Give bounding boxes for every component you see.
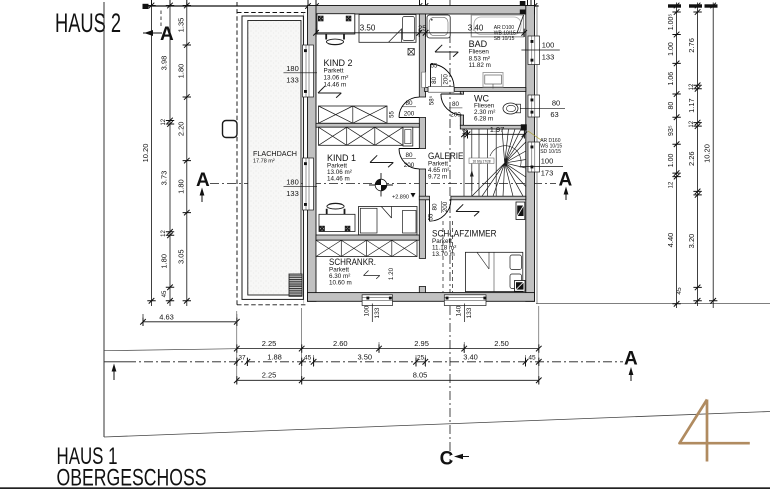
label window WC 80/63: [520, 99, 565, 120]
label window stairs 100/173: [521, 157, 563, 178]
svg-text:13.06 m²: 13.06 m²: [324, 75, 349, 82]
nightstand bottom: [515, 281, 526, 292]
svg-text:1.80: 1.80: [176, 179, 185, 194]
svg-text:80: 80: [668, 102, 675, 110]
svg-text:1.00: 1.00: [668, 153, 675, 167]
dresser KIND 1: [403, 211, 417, 234]
small table KIND 2: [408, 49, 414, 56]
svg-text:133: 133: [466, 307, 473, 318]
svg-text:2.60: 2.60: [333, 339, 348, 348]
flat roof outer box: [242, 16, 303, 299]
top dimension line: [143, 5, 539, 7]
svg-text:180: 180: [286, 64, 299, 73]
svg-text:80: 80: [432, 203, 439, 211]
branch line to dimension row: [104, 349, 237, 351]
svg-text:80: 80: [431, 76, 438, 84]
svg-text:2.26: 2.26: [687, 151, 696, 166]
bottom border line: [0, 487, 770, 489]
wall right: [526, 6, 535, 302]
svg-text:KIND 1: KIND 1: [327, 153, 356, 163]
svg-text:80: 80: [452, 101, 460, 108]
flat roof dashed outline: [237, 2, 308, 305]
svg-text:1.35: 1.35: [176, 18, 185, 33]
partition KIND2/KIND1: [316, 123, 419, 127]
wall left: [308, 6, 317, 302]
right chain fine segments: [666, 3, 681, 309]
svg-text:SCHRANKR.: SCHRANKR.: [329, 257, 376, 267]
svg-text:2.95: 2.95: [414, 339, 429, 348]
svg-text:80: 80: [405, 152, 413, 159]
svg-text:12: 12: [689, 120, 695, 127]
label WC: [474, 94, 495, 123]
svg-text:4.63: 4.63: [159, 312, 174, 321]
chair KIND 1: [327, 203, 345, 214]
dim row 12 / 1.97 (stairs): [461, 125, 527, 139]
svg-text:12: 12: [161, 118, 167, 125]
WC left wall: [460, 91, 463, 94]
hatched drain block: [289, 274, 302, 296]
wardrobe KIND 1: [319, 127, 404, 145]
section marker A top-left: [143, 9, 174, 45]
door KIND 1: [399, 149, 419, 169]
slope arrow KIND 1: [370, 155, 393, 167]
svg-text:10.20: 10.20: [141, 144, 150, 163]
arrow at left end of bottom section line: [112, 364, 117, 381]
svg-text:100: 100: [542, 41, 555, 50]
svg-text:3.73: 3.73: [160, 171, 169, 186]
window right wall 80/63 (WC): [528, 95, 540, 117]
label window BAD 100/133: [521, 41, 559, 62]
wardrobe strip: [316, 240, 417, 256]
right chain middle segments: [676, 3, 702, 307]
svg-text:2.76: 2.76: [687, 38, 696, 53]
svg-text:SB 10/15: SB 10/15: [494, 36, 515, 42]
svg-text:11.82 m: 11.82 m: [469, 62, 491, 69]
section line C vertical: [449, 0, 451, 464]
bottom row 2 (on section line): [234, 352, 542, 366]
label KIND 2: [324, 58, 353, 89]
label SCHLAFZIMMER: [432, 229, 497, 259]
chair KIND 2: [326, 34, 344, 45]
svg-text:55: 55: [429, 213, 435, 220]
svg-text:13.70 m: 13.70 m: [432, 251, 455, 258]
svg-text:93⁵: 93⁵: [668, 125, 675, 136]
stair left stringer: [463, 129, 465, 196]
walking line arc: [490, 146, 521, 168]
svg-text:3.40: 3.40: [463, 352, 478, 361]
interior wall A (KIND rooms / BAD-GALERIE): [419, 14, 425, 97]
toilet: [516, 104, 521, 113]
svg-text:A: A: [559, 170, 573, 191]
svg-text:1.88: 1.88: [267, 352, 282, 361]
svg-text:8.05: 8.05: [413, 371, 428, 380]
flat roof inner box with stipple: [248, 21, 301, 296]
svg-text:200: 200: [450, 112, 461, 119]
svg-text:133: 133: [542, 53, 555, 62]
svg-text:SCHLAFZIMMER: SCHLAFZIMMER: [432, 229, 497, 239]
slope arrow KIND 2: [318, 86, 341, 98]
marker C: [440, 449, 469, 470]
svg-text:1.17: 1.17: [687, 98, 696, 113]
section line A-A bottom: [105, 361, 128, 363]
witness lines: [237, 306, 539, 384]
svg-text:58⁵: 58⁵: [429, 95, 436, 105]
washbasin: [427, 15, 450, 38]
label KIND 1: [327, 153, 356, 183]
logo 4: [680, 400, 750, 462]
black corner mark top right: [520, 1, 526, 6]
dim row 3.50 / 25 / 3.40: [313, 23, 527, 37]
wall C above SCHLAFZIMMER: [419, 196, 429, 200]
svg-text:173: 173: [541, 169, 554, 178]
marker A right of section line: [559, 170, 573, 201]
window right wall 100/173 (stairs): [528, 142, 540, 172]
wall B below BAD: [425, 88, 429, 92]
right chain total 10.20: [703, 3, 718, 309]
downspout bracket: [223, 121, 238, 138]
window bottom wall 100/133 (SCHRANKR): [362, 295, 392, 306]
bed KIND 1: [359, 207, 418, 235]
svg-text:+2.890: +2.890: [392, 195, 409, 201]
svg-text:3.20: 3.20: [687, 234, 696, 249]
svg-text:3.05: 3.05: [176, 249, 185, 264]
svg-text:Fliesen: Fliesen: [469, 49, 490, 56]
left chain inner segments: [176, 3, 191, 307]
svg-text:45: 45: [162, 290, 168, 297]
property boundary vertical line: [103, 2, 105, 437]
svg-text:200: 200: [442, 201, 449, 212]
label GALERIE: [428, 151, 464, 181]
svg-text:133: 133: [286, 189, 299, 198]
svg-text:1.80: 1.80: [176, 64, 185, 79]
svg-text:1.06: 1.06: [668, 72, 675, 86]
door WC: [441, 94, 462, 115]
slope arrow SCHLAFZIMMER: [456, 204, 479, 216]
bed KIND 2: [359, 15, 416, 43]
label window bottom 100/133 rotated: [364, 304, 381, 323]
svg-text:1.00⁵: 1.00⁵: [668, 14, 675, 31]
level symbol: [369, 173, 393, 197]
window right wall 100/133 (BAD): [528, 36, 540, 65]
svg-text:A: A: [624, 349, 638, 370]
svg-text:16 Stg 17/28: 16 Stg 17/28: [472, 159, 490, 163]
door SCHLAFZIMMER: [430, 200, 451, 221]
svg-text:A: A: [196, 170, 210, 191]
svg-text:SD 10/15: SD 10/15: [540, 149, 561, 155]
eaves line bottom right: [536, 303, 770, 305]
dim 4.63: [140, 312, 239, 326]
shower screen diagonal: [517, 15, 524, 33]
wardrobe side cabinet: [403, 127, 413, 146]
stair label box: [469, 158, 494, 164]
bottom row 1: [234, 339, 542, 353]
wardrobe KIND 2: [319, 106, 388, 123]
label window bottom 140/133 rotated: [456, 304, 473, 323]
straight treads: [471, 129, 473, 196]
label BAD: [469, 39, 491, 69]
partition KIND1/SCHRANKR: [316, 235, 419, 240]
svg-text:55: 55: [389, 111, 395, 118]
svg-text:BAD: BAD: [469, 39, 488, 49]
svg-text:25: 25: [418, 23, 426, 32]
svg-text:4.40: 4.40: [666, 233, 675, 248]
radiator BAD: [483, 73, 503, 88]
svg-text:A: A: [160, 24, 174, 45]
slope arrow SCHRANKR: [364, 270, 380, 278]
WC bottom wall: [460, 125, 526, 129]
svg-text:6.28 m: 6.28 m: [474, 116, 493, 123]
flat roof plaster line left: [303, 13, 305, 304]
svg-text:133: 133: [286, 76, 299, 85]
svg-text:45: 45: [528, 354, 536, 361]
svg-text:200: 200: [442, 74, 449, 85]
window left wall 180/133 (KIND 1): [303, 158, 314, 210]
svg-text:25: 25: [417, 354, 425, 361]
note stairs window: [540, 138, 562, 155]
svg-text:14.46 m: 14.46 m: [327, 176, 350, 183]
svg-text:GALERIE: GALERIE: [428, 151, 464, 161]
svg-text:12: 12: [689, 83, 695, 90]
svg-text:1.20: 1.20: [388, 267, 395, 280]
section line A-A middle: [210, 183, 556, 185]
svg-text:1.97: 1.97: [490, 125, 505, 134]
svg-text:2.25: 2.25: [262, 339, 277, 348]
window bottom wall 140/133 (SCHLAFZIMMER): [444, 295, 486, 306]
bathtub: [471, 15, 523, 37]
marker A left of section line: [196, 170, 210, 202]
svg-text:55: 55: [431, 64, 438, 70]
stair up arrow: [471, 173, 473, 191]
svg-text:C: C: [440, 449, 454, 470]
wall top: [308, 6, 535, 15]
slope arrow BAD: [435, 45, 458, 57]
svg-text:2.25: 2.25: [262, 371, 277, 380]
door KIND 2: [399, 97, 419, 117]
window jamb marks: [304, 40, 533, 300]
svg-text:14.46 m: 14.46 m: [324, 82, 347, 89]
svg-text:100: 100: [364, 305, 371, 316]
column at stair corner: [521, 124, 527, 130]
svg-text:200: 200: [404, 111, 415, 118]
svg-text:200: 200: [404, 162, 415, 169]
svg-text:63: 63: [550, 110, 558, 119]
svg-text:17.78 m²: 17.78 m²: [253, 159, 275, 165]
svg-text:100: 100: [541, 157, 554, 166]
svg-text:45: 45: [304, 354, 312, 361]
winder treads fan: [472, 129, 526, 196]
label window KIND2 180/133: [284, 64, 318, 85]
svg-text:133: 133: [374, 307, 381, 318]
svg-text:45: 45: [676, 287, 683, 295]
svg-text:HAUS 2: HAUS 2: [55, 8, 121, 38]
svg-text:80: 80: [405, 100, 413, 107]
label SCHRANKR: [329, 257, 376, 287]
svg-text:140: 140: [456, 305, 463, 316]
wall bottom: [308, 293, 535, 302]
svg-text:12: 12: [669, 181, 675, 188]
note BAD: [494, 25, 516, 42]
svg-text:10.60 m: 10.60 m: [329, 280, 352, 287]
svg-text:37: 37: [238, 354, 246, 361]
svg-text:3.40: 3.40: [468, 23, 484, 32]
svg-text:12: 12: [161, 230, 167, 237]
svg-text:10.20: 10.20: [703, 144, 712, 163]
svg-text:FLACHDACH: FLACHDACH: [253, 149, 297, 158]
svg-text:3.98: 3.98: [160, 56, 169, 71]
window left wall 180/133 (KIND 2): [303, 45, 314, 97]
label window KIND1 180/133: [284, 177, 318, 198]
desk KIND 1: [319, 214, 355, 231]
svg-text:180: 180: [286, 177, 299, 186]
desk KIND 2: [317, 14, 355, 34]
svg-text:KIND 2: KIND 2: [324, 58, 353, 68]
eaves line right: [536, 5, 538, 304]
svg-text:Parkett: Parkett: [324, 68, 344, 75]
bottom row 3: [234, 371, 542, 385]
top edge stubs: [152, 0, 535, 6]
nightstand top: [516, 202, 525, 220]
svg-text:12: 12: [463, 128, 469, 135]
svg-text:9.72 m: 9.72 m: [428, 174, 447, 181]
terrain line: [104, 412, 770, 438]
svg-text:1.00: 1.00: [668, 42, 675, 56]
svg-text:2.50: 2.50: [494, 339, 509, 348]
marker A right end bottom section line: [624, 349, 638, 382]
svg-text:OBERGESCHOSS: OBERGESCHOSS: [57, 465, 207, 491]
left chain total 10.20: [141, 3, 156, 307]
door BAD: [431, 64, 455, 88]
left chain outer segments: [160, 3, 175, 307]
svg-text:80: 80: [552, 99, 560, 108]
svg-text:2.20: 2.20: [176, 121, 185, 136]
svg-text:1.80: 1.80: [160, 254, 169, 269]
gallery void dashed lines: [442, 221, 444, 293]
svg-text:3.50: 3.50: [357, 352, 372, 361]
svg-text:3.50: 3.50: [360, 23, 376, 32]
double bed: [465, 252, 522, 291]
